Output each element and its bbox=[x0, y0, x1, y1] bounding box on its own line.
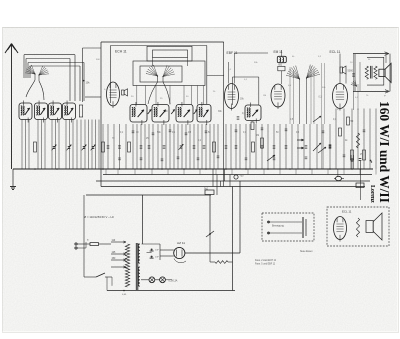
svg-text:1M: 1M bbox=[263, 95, 266, 97]
svg-text:1M: 1M bbox=[256, 135, 259, 137]
svg-text:ECH 11: ECH 11 bbox=[115, 50, 127, 54]
svg-text:AZ 11: AZ 11 bbox=[177, 241, 185, 245]
svg-text:Fass. 5 und EBF 11: Fass. 5 und EBF 11 bbox=[255, 264, 276, 266]
svg-text:1nF: 1nF bbox=[155, 257, 159, 259]
svg-text:Ø = 110/125/150 V ~ Hz: Ø = 110/125/150 V ~ Hz bbox=[84, 215, 115, 219]
svg-text:1M: 1M bbox=[188, 132, 191, 134]
svg-text:1nF: 1nF bbox=[155, 250, 159, 252]
svg-text:ECL 11: ECL 11 bbox=[342, 210, 352, 214]
svg-text:5kΩ: 5kΩ bbox=[204, 188, 208, 190]
svg-text:5000: 5000 bbox=[348, 70, 354, 73]
svg-text:gr: gr bbox=[384, 94, 386, 97]
svg-text:Neue Essen: Neue Essen bbox=[300, 251, 313, 253]
svg-text:Fass. 2 statt ECH 11: Fass. 2 statt ECH 11 bbox=[255, 259, 277, 262]
svg-text:ECL 11: ECL 11 bbox=[330, 50, 341, 54]
svg-text:Bewegung: Bewegung bbox=[272, 225, 284, 228]
